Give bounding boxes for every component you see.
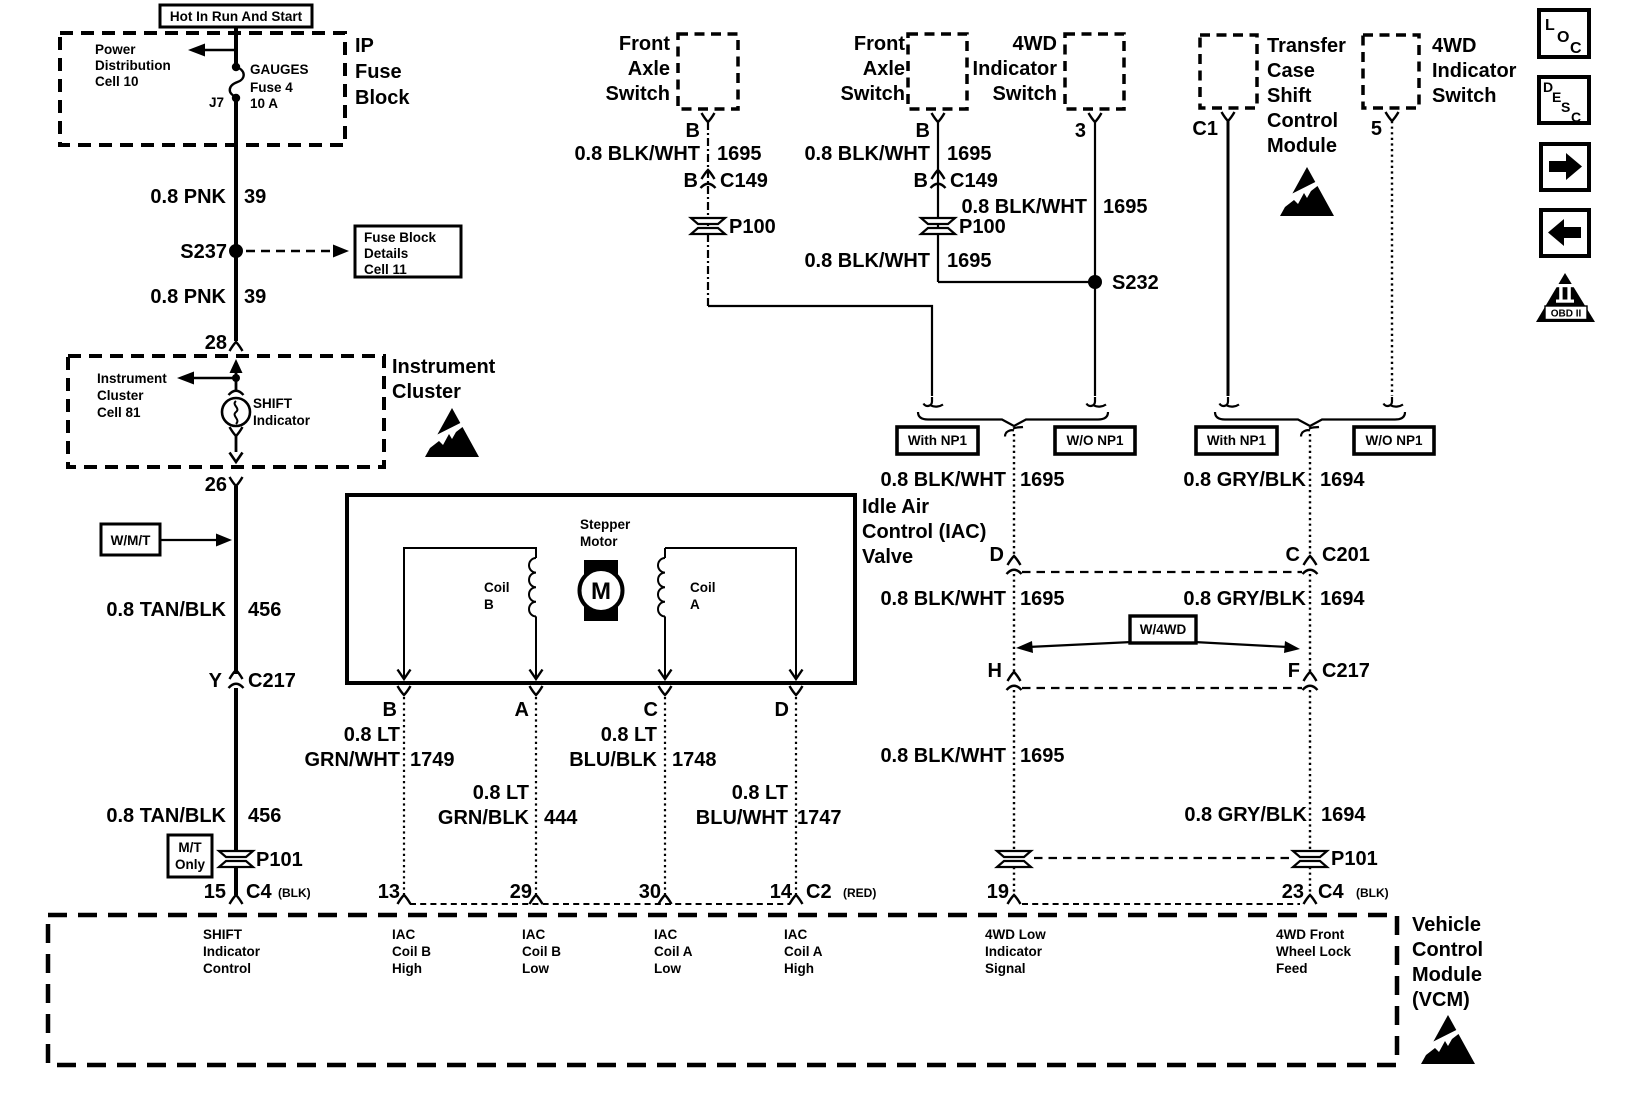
icon DESC button [1539,77,1589,125]
pin C1 connector [1222,112,1235,121]
svg-text:S237: S237 [180,241,227,263]
svg-text:Coil: Coil [690,580,716,595]
4WD Indicator Switch right dashed box [1363,35,1419,108]
svg-text:1695: 1695 [947,250,992,272]
pin B connector switch 1 [702,113,715,122]
svg-text:0.8 BLK/WHT: 0.8 BLK/WHT [880,469,1006,491]
svg-text:Signal: Signal [985,961,1026,976]
svg-text:Indicator: Indicator [203,944,261,959]
svg-text:B: B [383,699,397,721]
ESD symbol instrument cluster [425,408,479,457]
svg-text:E: E [1552,89,1561,105]
svg-text:4WD: 4WD [1013,33,1057,55]
svg-text:W/O NP1: W/O NP1 [1066,433,1123,448]
svg-text:GRN/BLK: GRN/BLK [438,807,530,829]
svg-text:0.8 BLK/WHT: 0.8 BLK/WHT [880,588,1006,610]
svg-text:4WD: 4WD [1432,35,1476,57]
svg-text:Indicator: Indicator [1432,60,1517,82]
svg-text:Control: Control [203,961,251,976]
Transfer Case dashed box [1200,35,1257,108]
svg-text:A: A [515,699,529,721]
icon OBD II symbol [1536,273,1595,322]
icon left-arrow button [1541,210,1589,256]
W/4WD box with arrows [1016,616,1300,653]
brace bus right [1215,412,1405,426]
svg-text:W/M/T: W/M/T [111,533,151,548]
Fuse Block Details Cell 11 box [355,226,461,277]
wire main vertical (fuse to cluster) [234,98,238,341]
svg-text:26: 26 [205,474,227,496]
svg-text:C217: C217 [1322,660,1370,682]
svg-text:P100: P100 [959,216,1006,238]
svg-text:Case: Case [1267,60,1315,82]
svg-text:W/4WD: W/4WD [1140,622,1187,637]
svg-text:L: L [1545,17,1555,34]
svg-text:SHIFT: SHIFT [203,927,243,942]
svg-text:Shift: Shift [1267,85,1312,107]
grommet P100 right [921,218,955,234]
svg-text:0.8 BLK/WHT: 0.8 BLK/WHT [804,250,930,272]
coil A circuit [658,548,796,679]
brace bus left [918,412,1108,426]
svg-text:H: H [988,660,1002,682]
svg-text:P101: P101 [256,849,303,871]
svg-text:C: C [1286,544,1300,566]
svg-text:1748: 1748 [672,749,717,771]
svg-text:0.8 LT: 0.8 LT [473,782,529,804]
svg-text:(RED): (RED) [843,886,876,900]
svg-text:W/O NP1: W/O NP1 [1365,433,1422,448]
svg-text:0.8 TAN/BLK: 0.8 TAN/BLK [106,599,226,621]
svg-text:Switch: Switch [841,83,905,105]
svg-text:Cell 81: Cell 81 [97,405,141,420]
svg-text:15: 15 [204,881,226,903]
svg-text:Vehicle: Vehicle [1412,914,1481,936]
svg-text:SHIFT: SHIFT [253,396,293,411]
svg-text:0.8 PNK: 0.8 PNK [150,286,226,308]
svg-text:Front: Front [619,33,670,55]
svg-text:Cluster: Cluster [392,381,461,403]
svg-text:With NP1: With NP1 [908,433,968,448]
Front Axle Switch 1 dashed box [678,34,738,109]
wire bus left (dotted) [1013,434,1015,558]
W/O NP1 box right [1354,427,1434,454]
svg-text:Indicator: Indicator [973,58,1058,80]
shift indicator lamp [229,391,244,395]
W/O NP1 box left [1055,427,1135,454]
svg-text:30: 30 [639,881,661,903]
svg-text:Feed: Feed [1276,961,1308,976]
svg-text:M: M [591,578,611,605]
svg-text:M/T: M/T [178,840,202,855]
wire IAC B [403,697,405,895]
svg-text:Hot In Run And Start: Hot In Run And Start [170,9,303,24]
svg-text:Switch: Switch [993,83,1057,105]
wire bus right (dotted) [1309,434,1311,558]
svg-text:A: A [690,597,700,612]
svg-text:Power: Power [95,42,136,57]
svg-text:5: 5 [1371,118,1382,140]
wire front axle switch 1 (dash-dot) [707,122,709,306]
wire bend to bus [708,306,932,396]
svg-text:IAC: IAC [654,927,678,942]
svg-text:Cluster: Cluster [97,388,144,403]
dashed line C217 [1022,687,1302,689]
svg-text:Control (IAC): Control (IAC) [862,521,986,543]
svg-text:Coil A: Coil A [654,944,693,959]
svg-text:Motor: Motor [580,534,618,549]
svg-text:Cell 10: Cell 10 [95,74,139,89]
svg-text:Y: Y [209,670,223,692]
wire 4WD indicator switch [1094,122,1096,396]
arrow to Power Distribution [203,49,236,51]
dashed connector line C2 [410,903,790,905]
svg-text:Coil: Coil [484,580,510,595]
svg-text:GAUGES: GAUGES [250,62,309,77]
svg-text:OBD II: OBD II [1551,309,1582,320]
With NP1 box left [897,427,978,454]
svg-text:S: S [1561,99,1570,115]
svg-text:0.8 GRY/BLK: 0.8 GRY/BLK [1183,469,1306,491]
M/T Only box [168,835,212,877]
svg-text:Low: Low [654,961,681,976]
svg-text:High: High [392,961,422,976]
grommet P101 bus right [1293,851,1327,867]
svg-text:O: O [1557,29,1569,46]
4WD Indicator Switch dashed box [1065,34,1124,109]
svg-text:C: C [1570,40,1582,57]
svg-text:Coil A: Coil A [784,944,823,959]
svg-text:(VCM): (VCM) [1412,989,1470,1011]
svg-text:Cell 11: Cell 11 [364,262,407,277]
ESD symbol VCM [1421,1015,1475,1064]
svg-text:Module: Module [1267,135,1337,157]
svg-text:Control: Control [1412,939,1483,961]
svg-text:With NP1: With NP1 [1207,433,1267,448]
svg-text:Transfer: Transfer [1267,35,1346,57]
svg-text:0.8 LT: 0.8 LT [601,724,657,746]
svg-text:1695: 1695 [1103,196,1148,218]
svg-text:B: B [686,120,700,142]
svg-text:39: 39 [244,186,266,208]
dashed line C201 [1022,571,1302,573]
wire main vertical (P101 to VCM) [234,867,238,895]
end hook at bus [1087,397,1107,407]
svg-text:D: D [990,544,1004,566]
svg-text:P100: P100 [729,216,776,238]
svg-text:IP: IP [355,35,374,57]
svg-text:B: B [484,597,494,612]
svg-text:1694: 1694 [1321,804,1366,826]
wire bend to S232 [938,281,1095,283]
stepper motor M [580,560,623,621]
pin B connector switch 2 [932,113,945,122]
svg-text:1694: 1694 [1320,588,1365,610]
svg-text:23: 23 [1282,881,1304,903]
svg-text:BLU/WHT: BLU/WHT [696,807,788,829]
coil B circuit [404,548,536,679]
svg-text:Switch: Switch [606,83,670,105]
svg-text:Switch: Switch [1432,85,1496,107]
svg-text:1695: 1695 [1020,588,1065,610]
svg-text:B: B [914,170,928,192]
svg-text:Indicator: Indicator [253,413,311,428]
svg-text:444: 444 [544,807,578,829]
VCM dashed box [48,915,1397,1065]
svg-text:J7: J7 [209,95,224,110]
svg-text:1695: 1695 [717,143,762,165]
svg-text:Module: Module [1412,964,1482,986]
svg-text:Block: Block [355,87,410,109]
svg-text:C: C [644,699,658,721]
Hot In Run And Start box [160,5,312,27]
svg-text:(BLK): (BLK) [1356,886,1389,900]
svg-text:C149: C149 [950,170,998,192]
dashed line P101 [1034,857,1290,859]
IAC valve box [347,495,855,683]
svg-text:F: F [1288,660,1300,682]
svg-text:(BLK): (BLK) [278,886,311,900]
wire main vertical (C217 to P101) [234,688,238,850]
svg-text:28: 28 [205,332,227,354]
svg-text:C201: C201 [1322,544,1370,566]
svg-text:B: B [684,170,698,192]
pin 5 connector [1386,112,1399,121]
svg-text:Stepper: Stepper [580,517,631,532]
svg-text:Axle: Axle [628,58,670,80]
svg-text:Fuse: Fuse [355,61,402,83]
svg-text:Wheel Lock: Wheel Lock [1276,944,1352,959]
svg-text:Coil B: Coil B [392,944,431,959]
svg-text:3: 3 [1075,120,1086,142]
svg-text:0.8 BLK/WHT: 0.8 BLK/WHT [961,196,1087,218]
svg-text:4WD Low: 4WD Low [985,927,1046,942]
svg-text:Instrument: Instrument [97,371,167,386]
svg-text:0.8 PNK: 0.8 PNK [150,186,226,208]
svg-text:Only: Only [175,857,205,872]
svg-text:1749: 1749 [410,749,455,771]
svg-text:0.8 GRY/BLK: 0.8 GRY/BLK [1184,804,1307,826]
svg-text:Distribution: Distribution [95,58,171,73]
svg-text:1695: 1695 [947,143,992,165]
svg-text:Axle: Axle [863,58,905,80]
wire IAC D [795,697,797,895]
svg-text:0.8 LT: 0.8 LT [344,724,400,746]
up arrow into cluster [235,368,238,390]
icon right-arrow button [1541,144,1589,190]
end hook at bus [924,397,944,407]
svg-text:Valve: Valve [862,546,913,568]
svg-text:0.8 LT: 0.8 LT [732,782,788,804]
svg-text:Idle Air: Idle Air [862,496,929,518]
svg-text:Coil B: Coil B [522,944,561,959]
wire main vertical (top) [234,27,238,67]
svg-text:Instrument: Instrument [392,356,496,378]
svg-text:C4: C4 [246,881,272,903]
dashed connector line C4 right [1022,903,1300,905]
fuse GAUGES Fuse 4 10A [232,63,240,71]
svg-text:0.8 BLK/WHT: 0.8 BLK/WHT [804,143,930,165]
svg-text:13: 13 [378,881,400,903]
svg-text:B: B [916,120,930,142]
svg-text:High: High [784,961,814,976]
svg-text:Low: Low [522,961,549,976]
svg-text:BLU/BLK: BLU/BLK [569,749,657,771]
svg-text:S232: S232 [1112,272,1159,294]
svg-text:0.8 GRY/BLK: 0.8 GRY/BLK [1183,588,1306,610]
splice S237 [229,244,243,258]
grommet P101 bus left [997,851,1031,867]
svg-text:C: C [1571,109,1581,125]
svg-text:IAC: IAC [522,927,546,942]
dashed arrow to Fuse Block Details [246,250,334,253]
svg-text:C2: C2 [806,881,832,903]
svg-text:Front: Front [854,33,905,55]
svg-text:C217: C217 [248,670,296,692]
svg-text:1695: 1695 [1020,745,1065,767]
W/M/T box [101,524,160,555]
svg-text:0.8 BLK/WHT: 0.8 BLK/WHT [880,745,1006,767]
svg-text:IAC: IAC [392,927,416,942]
svg-text:D: D [775,699,789,721]
svg-text:Control: Control [1267,110,1338,132]
svg-text:19: 19 [987,881,1009,903]
svg-text:39: 39 [244,286,266,308]
svg-text:C149: C149 [720,170,768,192]
splice S232 [1088,275,1102,289]
svg-text:1694: 1694 [1320,469,1365,491]
wire transfer case [1227,121,1230,396]
grommet P100 left [691,218,725,234]
IP Fuse Block dashed box [60,33,345,145]
svg-text:Details: Details [364,246,408,261]
ESD symbol transfer case [1280,167,1334,216]
svg-text:GRN/WHT: GRN/WHT [304,749,400,771]
With NP1 box right [1196,427,1277,454]
wire front axle switch 2 [937,122,939,282]
Instrument Cluster dashed box [68,356,384,467]
svg-text:Fuse Block: Fuse Block [364,230,437,245]
svg-text:0.8 BLK/WHT: 0.8 BLK/WHT [574,143,700,165]
pin 3 connector [1089,113,1102,122]
svg-text:Indicator: Indicator [985,944,1043,959]
wire IAC C [664,697,666,895]
icon LOC button [1539,10,1589,57]
svg-text:456: 456 [248,599,281,621]
svg-text:1747: 1747 [797,807,842,829]
wire IAC A [535,697,537,895]
wire main vertical (cluster to C217) [234,486,238,674]
arrow W/M/T to wire [160,539,218,541]
arrow to Instrument Cluster cell [192,377,236,379]
svg-text:4WD Front: 4WD Front [1276,927,1345,942]
svg-text:Fuse 4: Fuse 4 [250,80,293,95]
svg-text:10 A: 10 A [250,96,278,111]
svg-text:1695: 1695 [1020,469,1065,491]
svg-text:29: 29 [510,881,532,903]
svg-text:C1: C1 [1192,118,1218,140]
wire 4WD indicator switch right (dotted) [1391,121,1393,396]
grommet P101 left [219,851,253,867]
svg-text:14: 14 [770,881,793,903]
svg-text:456: 456 [248,805,281,827]
svg-text:IAC: IAC [784,927,808,942]
svg-text:C4: C4 [1318,881,1344,903]
Front Axle Switch 2 dashed box [908,34,967,109]
svg-text:P101: P101 [1331,848,1378,870]
svg-text:0.8 TAN/BLK: 0.8 TAN/BLK [106,805,226,827]
